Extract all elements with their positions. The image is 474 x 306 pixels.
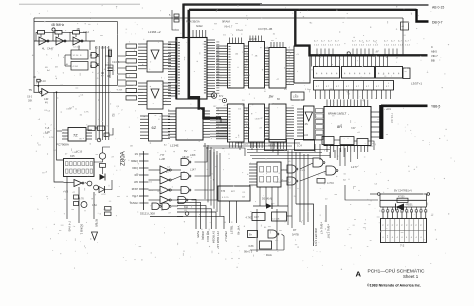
svg-text:6Z: 6Z <box>152 125 157 130</box>
pin rows U2H to U3H upper <box>265 47 270 49</box>
svg-text:DB RU4: DB RU4 <box>206 231 210 242</box>
label 5-6 small parts above CPU <box>174 14 179 17</box>
oscillator feedback loops <box>36 31 38 33</box>
svg-text:4.7K: 4.7K <box>149 190 154 192</box>
svg-text:WR R5T 1774: WR R5T 1774 <box>314 228 318 247</box>
svg-text:4.7K: 4.7K <box>79 198 84 201</box>
lower box right pins <box>203 110 210 112</box>
svg-text:1C4: 1C4 <box>297 144 302 148</box>
svg-text:4.7K: 4.7K <box>224 105 229 107</box>
wire L to WR RST stub <box>296 204 314 246</box>
IC U3H box upper <box>269 48 286 89</box>
wires latch box to diode row <box>259 187 261 206</box>
svg-text:1 2 4: 1 2 4 <box>321 45 327 47</box>
wire band below SRAM to cluster <box>247 149 330 151</box>
svg-text:CC7(PL-3B: CC7(PL-3B <box>258 27 272 31</box>
wire long bottom horizontal <box>150 216 183 218</box>
svg-text:AB-5: AB-5 <box>431 50 437 54</box>
gate U4F-2 <box>287 177 296 185</box>
CPU Z80 upper box U7 <box>176 38 207 100</box>
svg-text:L3/5T+1: L3/5T+1 <box>411 82 422 86</box>
wires DAA cluster <box>256 209 258 252</box>
flip-flop U9B box1 <box>71 50 88 59</box>
wire oscillator chain <box>34 40 95 42</box>
svg-text:4.7K: 4.7K <box>197 26 202 28</box>
bottom ticks U3H lower <box>270 142 272 149</box>
svg-text:C: C <box>431 45 433 49</box>
svg-text:B+: B+ <box>249 234 253 237</box>
wire vertical from R5 <box>37 82 39 92</box>
resistor array column RA1 <box>126 44 137 48</box>
terminal circle right <box>427 193 430 196</box>
svg-text:1.5A: 1.5A <box>92 204 97 207</box>
label LS08 small box lower right of columns <box>291 92 304 100</box>
IC U3H box lower <box>269 104 286 142</box>
timer box KD5 with cells <box>64 159 95 177</box>
capacitor C47 box <box>252 213 265 221</box>
stub wires with rotated labels set A <box>177 199 196 229</box>
bottom ticks U2H lower <box>250 142 252 148</box>
schematic frame left edge <box>33 18 35 92</box>
wires lower-left descend <box>66 177 68 220</box>
svg-text:47350: 47350 <box>398 197 405 199</box>
svg-text:L308: L308 <box>255 119 261 121</box>
bus DB vertical V2 snake into CPU area <box>189 10 221 118</box>
resistor R1 top-left <box>38 31 45 35</box>
resistor row vertical ticks <box>311 56 313 67</box>
diode D3 <box>99 187 105 193</box>
svg-text:C2 4a0: C2 4a0 <box>73 47 81 49</box>
U2H top ticks <box>249 36 251 42</box>
IC U2H box upper <box>249 42 265 89</box>
resistor pack pin header <box>382 212 384 219</box>
svg-text:L+08: L+08 <box>159 157 165 161</box>
svg-text:6T6: 6T6 <box>221 190 226 193</box>
svg-text:4S: 4S <box>305 122 308 126</box>
resistor R2 <box>55 31 62 35</box>
terminal circle on mux bus <box>347 52 350 55</box>
SRAM main box <box>324 107 371 146</box>
capacitor C3 stack <box>74 195 79 199</box>
svg-text:R7B/5: R7B/5 <box>95 219 99 227</box>
svg-text:4 1 C5: 4 1 C5 <box>222 197 229 199</box>
bottom ticks U6T lower <box>229 142 231 148</box>
svg-text:8w: 8w <box>269 95 274 99</box>
ticks left of 4S <box>297 108 304 110</box>
svg-text:Sheet 1: Sheet 1 <box>403 274 419 279</box>
svg-text:4R501: 4R501 <box>406 204 414 207</box>
buffer U6V-1 triangle <box>151 50 159 59</box>
ticks above U6T <box>229 38 231 44</box>
mux LS157 box 2 <box>342 67 375 79</box>
svg-text:YBB-5: YBB-5 <box>431 104 440 108</box>
wire frame right drop to bus <box>402 18 404 55</box>
svg-text:BUSAK: BUSAK <box>130 202 138 205</box>
svg-text:1 Cne: 1 Cne <box>305 89 312 91</box>
R/W control wire 1 <box>381 193 427 195</box>
svg-text:IORQ: IORQ <box>132 168 138 170</box>
CPU right pin ticks <box>207 39 215 41</box>
svg-text:L308: L308 <box>66 108 72 110</box>
wires under timer <box>64 182 74 184</box>
wire into inverter <box>34 91 40 93</box>
gates 5L bottom left pair <box>152 203 159 210</box>
IC 7Z box <box>68 128 86 142</box>
ticks wire3 to pin caps <box>382 207 384 210</box>
svg-text:L147: L147 <box>190 168 196 172</box>
NAND gate U6U-1 <box>181 159 189 166</box>
U3H top ticks <box>270 42 272 48</box>
circled dot mid <box>222 98 226 102</box>
svg-text:BV C047RB1+V: BV C047RB1+V <box>394 190 412 193</box>
pin rows U2H to U3H lower <box>265 107 270 109</box>
resistor R3 <box>73 31 80 35</box>
transistor Q1 <box>99 153 105 159</box>
bus AB vertical V1 <box>182 4 184 39</box>
wire rows from osc box to resistor column <box>118 55 126 57</box>
bus DB right step down <box>417 9 429 22</box>
svg-text:+5(V) 1767: +5(V) 1767 <box>327 224 331 239</box>
gate G2 right of flip-flops <box>91 62 97 68</box>
svg-text:30K: 30K <box>28 100 33 103</box>
CPU lower box latch <box>176 108 203 140</box>
buffer 4S L04 box <box>304 106 315 140</box>
wire inverter output <box>48 91 143 93</box>
svg-text:C4A7: C4A7 <box>47 47 54 51</box>
inverter bank U7T 2 <box>160 176 169 184</box>
svg-text:K05: K05 <box>70 154 75 158</box>
control pin ticks and labels <box>139 153 149 155</box>
ticks labels to bus <box>316 49 318 56</box>
bus V3 vertical to mux bus <box>295 10 427 55</box>
svg-text:DAA: DAA <box>266 253 272 257</box>
svg-text:L308: L308 <box>300 170 306 172</box>
diode D2 <box>100 174 106 180</box>
svg-text:4.7K: 4.7K <box>49 137 54 139</box>
SRAM right pins to V4 <box>371 111 380 113</box>
svg-text:1 2 4: 1 2 4 <box>366 45 372 47</box>
wire bottom connects <box>172 205 178 207</box>
svg-text:5.1K: 5.1K <box>41 80 46 83</box>
junction dot on clock line <box>56 91 58 93</box>
svg-text:+5(V) 4.7: +5(V) 4.7 <box>320 222 324 234</box>
svg-text:1C 14: 1C 14 <box>73 55 80 57</box>
svg-text:C47: C47 <box>254 215 259 219</box>
svg-text:3.6+A: 3.6+A <box>236 28 243 32</box>
inverter U4B-1 <box>39 37 47 45</box>
terminal circle left <box>378 193 381 196</box>
svg-text:A: A <box>356 269 362 278</box>
buffer 4S triangle <box>305 112 313 121</box>
svg-text:1 2 4: 1 2 4 <box>373 45 379 47</box>
scan speckle noise <box>95 194 96 195</box>
svg-text:6.8K: 6.8K <box>249 245 254 248</box>
svg-text:L177: L177 <box>351 165 358 169</box>
pin rows into buffer U6V-2 <box>138 82 147 84</box>
svg-text:4.7K: 4.7K <box>84 112 89 114</box>
svg-text:WR: WR <box>134 182 138 184</box>
svg-text:9RAM: 9RAM <box>222 20 230 24</box>
wires flip-flop cluster <box>65 54 71 56</box>
wires gates outputs <box>172 169 182 171</box>
svg-text:L308: L308 <box>43 133 49 135</box>
small box below gates <box>317 179 325 184</box>
resistor R4 vertical <box>109 50 112 57</box>
bus interface box <box>294 46 310 83</box>
capacitor C2 marks <box>108 67 113 69</box>
R/W control left vertical <box>379 194 381 207</box>
pin rows U6T to U2H lower <box>244 107 249 109</box>
svg-text:AB 0-15: AB 0-15 <box>432 5 444 9</box>
svg-text:4B C7: 4B C7 <box>268 144 276 148</box>
wires control to inverters <box>149 169 161 171</box>
svg-text:Z80A: Z80A <box>120 150 127 166</box>
gates top row boxes <box>322 137 334 145</box>
svg-text:V6+6.7: V6+6.7 <box>224 25 233 29</box>
svg-text:5V65: 5V65 <box>196 231 200 238</box>
mux end small box <box>403 68 410 79</box>
inverter bank U7T 1 <box>160 166 169 174</box>
gate row under timer - bubbles <box>87 181 92 186</box>
svg-text:7 4 V+B: 7 4 V+B <box>68 221 72 231</box>
svg-text:+D1: +D1 <box>386 107 391 111</box>
svg-text:1 2 4: 1 2 4 <box>335 45 341 47</box>
svg-text:1 2 4: 1 2 4 <box>352 45 358 47</box>
svg-text:5Y RGB4: 5Y RGB4 <box>212 231 216 244</box>
svg-text:RT: RT <box>293 228 297 232</box>
bus V4 thick vertical bar at SRAM <box>379 105 383 139</box>
schematic frame top edge <box>34 17 403 19</box>
wire long vertical left A <box>54 92 64 182</box>
wire bundle verticals left of buffers <box>95 46 97 140</box>
U6T inner pin texture <box>229 46 231 47</box>
latch AB 4F left pins <box>249 163 257 165</box>
svg-text:L1366 +2: L1366 +2 <box>148 30 161 34</box>
diode D1 4147 <box>253 205 266 207</box>
inverter U7S <box>40 91 42 93</box>
svg-text:4.7K0: 4.7K0 <box>327 181 334 185</box>
svg-text:1 2 4: 1 2 4 <box>405 45 411 47</box>
inverter bank U7T 4 <box>160 196 169 204</box>
pin rows into buffer U6Z <box>140 115 149 117</box>
R/W control wire 2 <box>380 199 427 201</box>
AND gate U5J-1 <box>313 158 323 167</box>
pin rows CPU to U6T <box>216 45 228 47</box>
pin rows into buffer U6V-1 <box>138 43 147 45</box>
svg-text:4.7K: 4.7K <box>276 182 281 184</box>
svg-text:7BL5T: 7BL5T <box>230 226 234 235</box>
small box under DB bus right <box>401 22 409 30</box>
small box B+ <box>248 231 258 238</box>
svg-text:+VD: +VD <box>63 190 68 194</box>
wires below columns <box>251 142 253 150</box>
capacitor C4 stack right <box>105 207 112 211</box>
CPU right pin labels texture <box>216 41 219 44</box>
inverter U4B-2 <box>56 37 64 45</box>
svg-text:DB 0-7: DB 0-7 <box>432 21 443 25</box>
resistor cell column RA2 <box>316 109 324 113</box>
SRAM bottom pin ticks <box>326 146 328 153</box>
crystal circle RY <box>211 93 217 99</box>
svg-text:4V: 4V <box>45 102 48 105</box>
mux LS157 box 1 <box>314 67 340 79</box>
gate DAA cluster <box>268 230 277 238</box>
SRAM bottom wire extensions <box>329 152 331 158</box>
svg-text:VID-7: VID-7 <box>431 54 438 58</box>
resistor R6 small <box>100 164 106 168</box>
flip-flop U9B box2 <box>71 62 88 71</box>
wire long vertical left B <box>57 92 64 160</box>
svg-text:1 2 4: 1 2 4 <box>398 45 404 47</box>
NAND gate U6U-3 <box>181 187 189 194</box>
bus AB address thick horizontal H1 <box>184 3 263 5</box>
svg-text:8 V: 8 V <box>219 94 223 98</box>
svg-text:74Y RGB L47: 74Y RGB L47 <box>216 231 220 249</box>
inverter U4B-3 <box>73 37 81 45</box>
svg-text:L04A: L04A <box>83 30 89 34</box>
box right of C47 <box>272 212 287 221</box>
IC U6T tall box <box>228 44 245 89</box>
stub wires set A right pair <box>228 201 230 223</box>
svg-text:4B: 4B <box>77 27 80 31</box>
IC U2H box lower <box>249 104 265 142</box>
ticks below latch row <box>315 90 317 99</box>
svg-text:RFSH: RFSH <box>132 189 139 191</box>
svg-text:6RAM 16/5LT: 6RAM 16/5LT <box>328 112 346 116</box>
svg-text:75: 75 <box>29 88 33 92</box>
svg-text:L04: L04 <box>304 134 309 137</box>
gate row under timer - triangle <box>74 180 82 187</box>
svg-text:7AY: 7AY <box>351 126 356 130</box>
svg-text:L308: L308 <box>117 90 123 92</box>
small box right <box>295 140 315 151</box>
svg-text:10K: 10K <box>101 47 106 50</box>
resistor 4735 box <box>397 198 408 202</box>
svg-text:L134E: L134E <box>170 144 179 148</box>
small box 4B C7 <box>265 140 287 151</box>
svg-text:1 2 4: 1 2 4 <box>314 45 320 47</box>
svg-text:4.7K: 4.7K <box>101 194 106 196</box>
svg-text:1 2 4: 1 2 4 <box>328 45 334 47</box>
wires gates top row <box>310 139 322 141</box>
svg-text:C6 0: C6 0 <box>27 96 33 99</box>
CPU inner pin numbers texture <box>181 0 183 1</box>
faint micro strokes texture <box>311 69 313 71</box>
arrow down at RGB stub <box>92 232 98 240</box>
svg-text:WR(D): WR(D) <box>201 231 205 240</box>
buffer U6V-2 box <box>147 81 163 109</box>
svg-text:L308: L308 <box>293 96 299 99</box>
svg-text:7B45 L7: 7B45 L7 <box>224 231 228 242</box>
resistor pack internal columns <box>384 219 386 243</box>
inverter bank U7T 3 <box>160 186 169 194</box>
svg-text:4B 9MHz: 4B 9MHz <box>51 23 65 27</box>
svg-text:D0 (414): D0 (414) <box>262 198 272 201</box>
gate U4F-1 <box>287 165 296 173</box>
control pins vertical line <box>143 151 145 210</box>
lower box left pins <box>168 110 176 112</box>
svg-text:4.7KD: 4.7KD <box>246 217 253 220</box>
wires from lower latch to right cluster <box>203 146 240 150</box>
svg-text:4R: 4R <box>33 76 36 79</box>
pin rows U6T to U2H upper <box>244 45 249 47</box>
wires upper lower-left <box>57 130 62 132</box>
IC box above stubs <box>218 186 250 201</box>
R/W control right vertical <box>426 194 428 207</box>
svg-text:1 2 4: 1 2 4 <box>391 45 397 47</box>
transistor Q2 <box>81 202 87 208</box>
buffer U6Z box <box>149 114 163 142</box>
bus H4 thick horizontal lower right <box>381 105 428 108</box>
svg-text:4 7d1: 4 7d1 <box>73 66 79 68</box>
NAND gate U6U-4 <box>178 197 186 204</box>
svg-text:L308: L308 <box>368 146 374 148</box>
svg-text:7 0 1 4 2: 7 0 1 4 2 <box>390 113 393 123</box>
7Z pins <box>62 129 68 131</box>
svg-text:1 2 4: 1 2 4 <box>384 45 390 47</box>
wire osc to FF cluster <box>89 41 91 50</box>
latch cell row below muxes <box>314 81 394 91</box>
gate G1 right of flip-flops <box>91 53 97 59</box>
small parts right of 7Z <box>88 126 95 131</box>
svg-text:T+5: T+5 <box>45 127 50 130</box>
box lower DAA <box>260 241 272 249</box>
wires into R/W control from left <box>370 193 377 195</box>
svg-text:PC7908A: PC7908A <box>56 143 69 147</box>
crystal X1 <box>52 28 55 31</box>
diode MR501 <box>395 204 397 211</box>
svg-text:6V: 6V <box>184 149 188 153</box>
pin rows U3H to bus box <box>286 49 294 51</box>
wires descend from gates cluster <box>287 150 289 225</box>
R/W control wire 3 with diode MR501 <box>380 206 396 208</box>
resistor R5 5.1K with +5 <box>37 79 40 82</box>
SRAM top pin ticks <box>326 100 328 107</box>
svg-text:MREQ: MREQ <box>131 161 138 163</box>
svg-text:C1 14B: C1 14B <box>272 219 280 221</box>
resistor pack box 7-2 <box>381 219 427 243</box>
svg-text:RD: RD <box>135 175 139 177</box>
junction C6 circle <box>185 212 189 216</box>
oscillator sub-circuit boundary box <box>34 21 118 23</box>
svg-text:5/47B: 5/47B <box>292 233 299 237</box>
svg-text:Y4T 40: Y4T 40 <box>237 226 241 236</box>
CPU left pin ticks <box>168 41 176 43</box>
svg-text:P6A/3B/3A: P6A/3B/3A <box>186 20 200 24</box>
svg-text:1 2 4: 1 2 4 <box>359 45 365 47</box>
svg-text:L308: L308 <box>190 154 196 157</box>
wires right cluster <box>281 169 287 171</box>
wire mesh center verticals <box>204 143 206 199</box>
faint top wire <box>19 3 140 5</box>
buffer U6V-2 triangle <box>151 89 159 98</box>
svg-text:9B+G 5: 9B+G 5 <box>244 251 253 254</box>
CPU box thick left edge <box>175 38 177 100</box>
AND gate U5J-2 <box>326 166 336 175</box>
svg-text:©1983 Nintendo of America Inc.: ©1983 Nintendo of America Inc. <box>367 284 421 288</box>
latch AB 4F box <box>257 162 281 187</box>
svg-text:L308: L308 <box>75 170 81 172</box>
wire bundle center to right <box>220 118 222 123</box>
pin rows CPU to U6T lower <box>216 107 228 109</box>
bus DB thick horizontal H2 <box>189 9 417 11</box>
svg-text:53121 L308: 53121 L308 <box>140 212 155 216</box>
svg-text:L308: L308 <box>72 152 78 154</box>
mux LS157 box 3 <box>376 67 403 79</box>
junction dot <box>38 85 40 87</box>
CPU top ticks to labels <box>192 30 194 38</box>
wires right of timer <box>94 159 103 162</box>
